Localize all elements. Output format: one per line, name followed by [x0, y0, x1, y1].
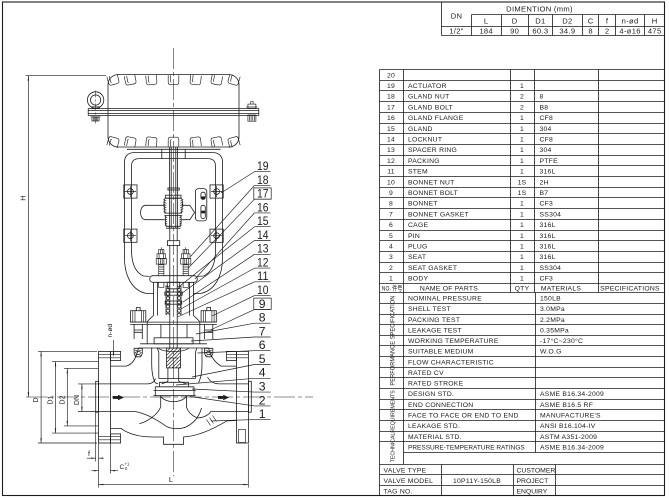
- svg-text:DN: DN: [451, 12, 463, 21]
- svg-text:1: 1: [389, 276, 393, 283]
- bonnet bottom boss and gasket (item 7): [139, 338, 209, 352]
- svg-text:BODY: BODY: [408, 276, 428, 283]
- yoke bolt pad lower left: [124, 229, 137, 242]
- plug bottom dome: [161, 396, 187, 402]
- plug center cross: [169, 357, 179, 359]
- parts list table: [380, 70, 665, 293]
- svg-text:FACE TO FACE OR END TO END: FACE TO FACE OR END TO END: [408, 413, 519, 420]
- dimension DN: [74, 384, 99, 412]
- svg-text:CUSTOMER: CUSTOMER: [517, 467, 556, 474]
- svg-text:SPECIFICATIONS: SPECIFICATIONS: [600, 286, 660, 293]
- leader and balloon number 5: [192, 352, 271, 377]
- dimension D: [33, 351, 97, 443]
- svg-text:15: 15: [257, 214, 269, 228]
- yoke inner window: [132, 159, 216, 277]
- svg-text:SHELL TEST: SHELL TEST: [408, 306, 451, 313]
- leader and balloon number 6: [198, 338, 271, 353]
- technical requirements table: [380, 389, 665, 465]
- seat ring assembly (items 3,2): [154, 382, 196, 395]
- gland follower (item 15): [167, 282, 180, 289]
- svg-text:FLOW CHARACTERISTIC: FLOW CHARACTERISTIC: [408, 359, 494, 366]
- svg-text:C: C: [588, 17, 594, 26]
- yoke bolt pad upper left: [124, 185, 137, 198]
- svg-text:PIN: PIN: [408, 233, 420, 240]
- svg-text:19: 19: [257, 159, 269, 173]
- svg-text:PACKING TEST: PACKING TEST: [408, 317, 460, 324]
- svg-text:10: 10: [257, 283, 269, 297]
- svg-text:16: 16: [257, 200, 269, 214]
- dimension f: [87, 412, 104, 461]
- svg-text:1: 1: [520, 147, 524, 154]
- svg-text:MATERIAL STD.: MATERIAL STD.: [408, 434, 462, 441]
- svg-text:SEAT: SEAT: [408, 254, 426, 261]
- yoke mounting plate under actuator: [127, 149, 221, 158]
- svg-text:15: 15: [387, 126, 395, 133]
- svg-text:10P11Y-150LB: 10P11Y-150LB: [453, 478, 501, 485]
- top dimension table: [442, 3, 665, 36]
- svg-text:SEAT GASKET: SEAT GASKET: [408, 265, 457, 272]
- body outline (item 1): [111, 348, 237, 444]
- body bore lines left (DN): [99, 379, 202, 429]
- svg-text:RATED CV: RATED CV: [408, 370, 444, 377]
- svg-text:34.9: 34.9: [559, 27, 575, 36]
- gallery wall left: [152, 348, 158, 384]
- svg-text:PRESSURE-TEMPERATURE RATINGS: PRESSURE-TEMPERATURE RATINGS: [408, 445, 525, 452]
- actuator flange bolt left: [91, 117, 101, 121]
- svg-text:L: L: [169, 475, 173, 484]
- body pipe flange right: [226, 351, 251, 443]
- actuator stem: [169, 147, 177, 228]
- gland flange plate (item 16): [150, 276, 198, 283]
- flange hole count label n-od: [107, 324, 114, 357]
- gland bolt left with nuts (items 17,18): [156, 247, 166, 287]
- stem coupling lower barrel: [165, 216, 182, 229]
- bonnet bolt stud and nut right: [201, 307, 216, 356]
- svg-text:1: 1: [520, 169, 524, 176]
- svg-text:1S: 1S: [518, 190, 527, 197]
- svg-text:PERFORMANCE SPECIFICATION: PERFORMANCE SPECIFICATION: [390, 296, 397, 386]
- body rib hatch mark: [207, 416, 217, 426]
- svg-text:20: 20: [387, 72, 395, 79]
- leader and balloon number 10: [212, 283, 271, 316]
- svg-text:f: f: [606, 17, 609, 26]
- svg-text:2: 2: [259, 393, 266, 407]
- leader and balloon number 18: [191, 173, 271, 257]
- body pipe flange left: [96, 351, 121, 443]
- svg-text:TAG NO.: TAG NO.: [384, 488, 413, 495]
- svg-text:RATED STROKE: RATED STROKE: [408, 381, 464, 388]
- svg-text:QTY: QTY: [515, 286, 530, 293]
- gland bolt right with nuts: [181, 247, 191, 287]
- svg-text:4: 4: [259, 366, 266, 380]
- svg-text:6: 6: [259, 338, 266, 352]
- svg-text:1: 1: [520, 265, 524, 272]
- flow arrow right: [218, 395, 229, 401]
- svg-text:1: 1: [520, 126, 524, 133]
- actuator diaphragm housing (item 19): [108, 75, 239, 147]
- svg-text:L: L: [484, 17, 489, 26]
- svg-text:GLAND BOLT: GLAND BOLT: [408, 104, 453, 111]
- svg-text:1/2": 1/2": [449, 27, 463, 36]
- svg-text:ASTM A351-2009: ASTM A351-2009: [540, 434, 597, 441]
- stuffing box outer wall: [154, 282, 194, 315]
- svg-text:D2: D2: [562, 17, 572, 26]
- svg-text:1: 1: [520, 83, 524, 90]
- svg-text:PROJECT: PROJECT: [517, 478, 549, 485]
- svg-text:8: 8: [259, 311, 266, 325]
- svg-text:316L: 316L: [540, 169, 556, 176]
- bonnet upper profile (item 8): [147, 316, 200, 344]
- svg-text:1: 1: [520, 222, 524, 229]
- performance specification table: [380, 293, 665, 389]
- dimension D1: [48, 362, 98, 434]
- svg-text:18: 18: [257, 173, 269, 187]
- leader and balloon number 9: [211, 297, 272, 330]
- svg-text:STEM: STEM: [408, 169, 428, 176]
- svg-text:GLAND FLANGE: GLAND FLANGE: [408, 115, 464, 122]
- svg-text:D1: D1: [535, 17, 545, 26]
- svg-text:316L: 316L: [540, 244, 556, 251]
- svg-text:CF3: CF3: [540, 276, 554, 283]
- svg-text:DN: DN: [74, 395, 81, 405]
- svg-text:1: 1: [520, 211, 524, 218]
- leader and balloon number 1: [211, 407, 271, 421]
- svg-text:PACKING: PACKING: [408, 158, 440, 165]
- svg-text:GLAND NUT: GLAND NUT: [408, 94, 450, 101]
- svg-text:n-ød: n-ød: [107, 324, 114, 338]
- svg-text:WORKING TEMPERATURE: WORKING TEMPERATURE: [408, 338, 499, 345]
- svg-text:1: 1: [259, 407, 266, 421]
- svg-text:16: 16: [387, 115, 395, 122]
- horizontal pipe centerline: [26, 396, 313, 398]
- svg-text:184: 184: [479, 27, 493, 36]
- svg-text:ASME B16.5 RF: ASME B16.5 RF: [540, 402, 593, 409]
- svg-text:9: 9: [389, 190, 393, 197]
- leader and balloon number 2: [190, 393, 271, 407]
- svg-text:5: 5: [259, 352, 266, 366]
- cage (item 6): [157, 348, 197, 379]
- svg-text:1: 1: [520, 233, 524, 240]
- valve stem upper (item 11): [170, 228, 177, 241]
- svg-text:150LB: 150LB: [540, 296, 561, 303]
- plug (item 4): [162, 368, 187, 384]
- svg-text:SPACER RING: SPACER RING: [408, 147, 457, 154]
- leader and balloon number 19: [221, 159, 271, 193]
- leader and balloon number 13: [183, 242, 271, 302]
- actuator bottom cover ribs: [107, 136, 240, 148]
- svg-text:H: H: [652, 17, 658, 26]
- yoke outer frame: [125, 153, 223, 294]
- svg-text:NAME OF PARTS: NAME OF PARTS: [420, 286, 478, 293]
- svg-text:1S: 1S: [518, 179, 527, 186]
- leader and balloon number 11: [178, 269, 271, 317]
- svg-text:60.3: 60.3: [532, 27, 548, 36]
- svg-text:NOMINAL PRESSURE: NOMINAL PRESSURE: [408, 296, 482, 303]
- svg-text:LOCKNUT: LOCKNUT: [408, 137, 442, 144]
- svg-text:1: 1: [520, 158, 524, 165]
- svg-text:2.2MPa: 2.2MPa: [540, 317, 565, 324]
- svg-text:8: 8: [540, 94, 544, 101]
- svg-text:ASME B16.34-2009: ASME B16.34-2009: [540, 445, 604, 452]
- svg-text:14: 14: [387, 137, 395, 144]
- svg-text:MANUFACTURE'S: MANUFACTURE'S: [540, 413, 601, 420]
- locknut band (item 14): [165, 301, 182, 304]
- flow arrow left: [113, 395, 124, 401]
- svg-text:17: 17: [387, 104, 395, 111]
- vertical centerline of valve: [173, 48, 175, 476]
- svg-text:D: D: [512, 17, 518, 26]
- svg-text:18: 18: [387, 94, 395, 101]
- svg-text:B7: B7: [540, 190, 549, 197]
- svg-text:12: 12: [257, 256, 269, 270]
- svg-text:6: 6: [389, 222, 393, 229]
- yoke bolt pad upper right: [210, 185, 223, 198]
- plug stem nut hatched: [167, 348, 181, 368]
- svg-text:D: D: [33, 397, 40, 402]
- svg-text:3: 3: [259, 380, 266, 394]
- actuator flange bolt right: [246, 102, 257, 122]
- svg-text:BONNET BOLT: BONNET BOLT: [408, 190, 458, 197]
- gallery wall right: [198, 348, 202, 383]
- svg-text:ACTUATOR: ACTUATOR: [408, 83, 447, 90]
- stem clamp arm left: [141, 205, 165, 219]
- svg-text:11: 11: [387, 169, 395, 176]
- svg-text:BONNET GASKET: BONNET GASKET: [408, 211, 469, 218]
- svg-text:LEAKAGE STD.: LEAKAGE STD.: [408, 423, 460, 430]
- travel indicator plate: [195, 189, 206, 221]
- svg-text:316L: 316L: [540, 254, 556, 261]
- svg-text:1: 1: [520, 244, 524, 251]
- svg-text:90: 90: [510, 27, 519, 36]
- svg-text:ANSI B16.104-IV: ANSI B16.104-IV: [540, 423, 596, 430]
- svg-text:SUITABLE MEDIUM: SUITABLE MEDIUM: [408, 349, 474, 356]
- body bore lines right: [197, 377, 249, 418]
- svg-text:8: 8: [588, 27, 593, 36]
- svg-text:GLAND: GLAND: [408, 126, 433, 133]
- bonnet neck inner: [161, 324, 187, 337]
- svg-text:MATERIALS: MATERIALS: [541, 286, 581, 293]
- svg-text:CAGE: CAGE: [408, 222, 428, 229]
- svg-text:VALVE TYPE: VALVE TYPE: [384, 467, 427, 474]
- svg-text:DESIGN STD.: DESIGN STD.: [408, 391, 454, 398]
- svg-text:0: 0: [125, 466, 128, 471]
- svg-text:n-ød: n-ød: [622, 17, 639, 26]
- seat bore below: [140, 396, 197, 424]
- bonnet flange top lines: [130, 322, 217, 324]
- leader and balloon number 7: [191, 324, 271, 341]
- svg-text:D1: D1: [48, 395, 55, 404]
- leader and balloon number 3: [192, 380, 271, 394]
- actuator diaphragm flange plates: [88, 109, 259, 116]
- svg-text:VALVE MODEL: VALVE MODEL: [384, 478, 434, 485]
- svg-text:END CONNECTION: END CONNECTION: [408, 402, 473, 409]
- stem clamp arm right: [182, 205, 195, 219]
- title block: [380, 465, 665, 496]
- svg-text:10: 10: [387, 179, 395, 186]
- svg-text:1: 1: [520, 137, 524, 144]
- dimension C: [92, 443, 130, 474]
- svg-text:-17°C~230°C: -17°C~230°C: [540, 337, 583, 345]
- dimension H: [18, 76, 106, 397]
- svg-text:304: 304: [540, 147, 552, 154]
- svg-text:TECHNICALREQUIREMENTS: TECHNICALREQUIREMENTS: [391, 390, 397, 462]
- svg-text:2: 2: [605, 27, 610, 36]
- packing rings with hatch (item 12): [166, 286, 181, 315]
- svg-text:NO. 件号: NO. 件号: [382, 284, 403, 293]
- svg-text:316L: 316L: [540, 233, 556, 240]
- svg-text:D2: D2: [59, 395, 66, 404]
- svg-text:2: 2: [520, 94, 524, 101]
- svg-text:BONNET: BONNET: [408, 201, 438, 208]
- leader and balloon number 17: [188, 187, 271, 268]
- svg-text:ENQUIRY: ENQUIRY: [517, 488, 548, 495]
- svg-text:11: 11: [257, 269, 269, 283]
- svg-text:2H: 2H: [540, 179, 549, 186]
- svg-text:14: 14: [257, 228, 269, 242]
- dimension L: [99, 444, 249, 488]
- svg-text:CF3: CF3: [540, 201, 554, 208]
- yoke bolt pad lower right: [210, 229, 223, 242]
- svg-text:SS304: SS304: [540, 211, 562, 218]
- svg-text:13: 13: [387, 147, 395, 154]
- svg-text:2: 2: [389, 265, 393, 272]
- svg-text:ASME B16.34-2009: ASME B16.34-2009: [540, 391, 604, 398]
- svg-text:8: 8: [389, 201, 393, 208]
- svg-text:B8: B8: [540, 104, 549, 111]
- svg-text:W.O.G: W.O.G: [540, 349, 562, 356]
- svg-text:CF8: CF8: [540, 137, 554, 144]
- leader and balloon number 14: [182, 228, 271, 294]
- svg-text:19: 19: [387, 83, 395, 90]
- svg-text:f: f: [88, 451, 90, 458]
- spacer ring band (item 13): [165, 292, 182, 295]
- lifting eyebolt on actuator: [87, 91, 103, 124]
- stem coupling upper barrel: [163, 198, 183, 215]
- stem coupling top band: [166, 195, 182, 198]
- svg-text:1: 1: [520, 254, 524, 261]
- svg-text:2: 2: [520, 104, 524, 111]
- leader and balloon number 16: [195, 200, 271, 279]
- svg-text:5: 5: [389, 233, 393, 240]
- svg-text:3: 3: [389, 254, 393, 261]
- svg-text:CF8: CF8: [540, 115, 554, 122]
- svg-text:4: 4: [389, 244, 393, 251]
- packing bore lines: [166, 254, 181, 348]
- svg-text:4-ø16: 4-ø16: [619, 27, 640, 36]
- leader and balloon number 12: [181, 256, 271, 310]
- stem connector cap: [168, 188, 179, 190]
- svg-text:7: 7: [259, 324, 266, 338]
- bonnet bolt stud and nut left (items 9,10): [131, 307, 146, 356]
- svg-text:3.0MPa: 3.0MPa: [540, 306, 565, 313]
- leader and balloon number 15: [181, 214, 271, 285]
- svg-text:7: 7: [389, 211, 393, 218]
- svg-text:LEAKAGE TEST: LEAKAGE TEST: [408, 327, 462, 334]
- svg-text:DIMENTION (mm): DIMENTION (mm): [506, 5, 573, 14]
- actuator top cover ribs: [107, 74, 240, 86]
- svg-text:9: 9: [259, 297, 266, 311]
- dimension D2: [59, 368, 98, 426]
- leader and balloon number 8: [196, 311, 271, 334]
- svg-text:PLUG: PLUG: [408, 244, 428, 251]
- svg-text:BONNET NUT: BONNET NUT: [408, 179, 455, 186]
- svg-text:0.35MPa: 0.35MPa: [540, 327, 569, 334]
- svg-text:1: 1: [520, 115, 524, 122]
- svg-text:17: 17: [257, 187, 269, 201]
- svg-text:1: 1: [520, 201, 524, 208]
- leader and balloon number 4: [176, 366, 271, 385]
- svg-text:SS304: SS304: [540, 265, 562, 272]
- svg-text:475: 475: [648, 27, 662, 36]
- svg-text:PTFE: PTFE: [540, 158, 559, 165]
- svg-text:1: 1: [520, 276, 524, 283]
- stem guide bushing: [167, 241, 179, 246]
- svg-text:304: 304: [540, 126, 552, 133]
- svg-text:13: 13: [257, 242, 269, 256]
- svg-text:H: H: [18, 195, 27, 200]
- svg-text:316L: 316L: [540, 222, 556, 229]
- svg-text:12: 12: [387, 158, 395, 165]
